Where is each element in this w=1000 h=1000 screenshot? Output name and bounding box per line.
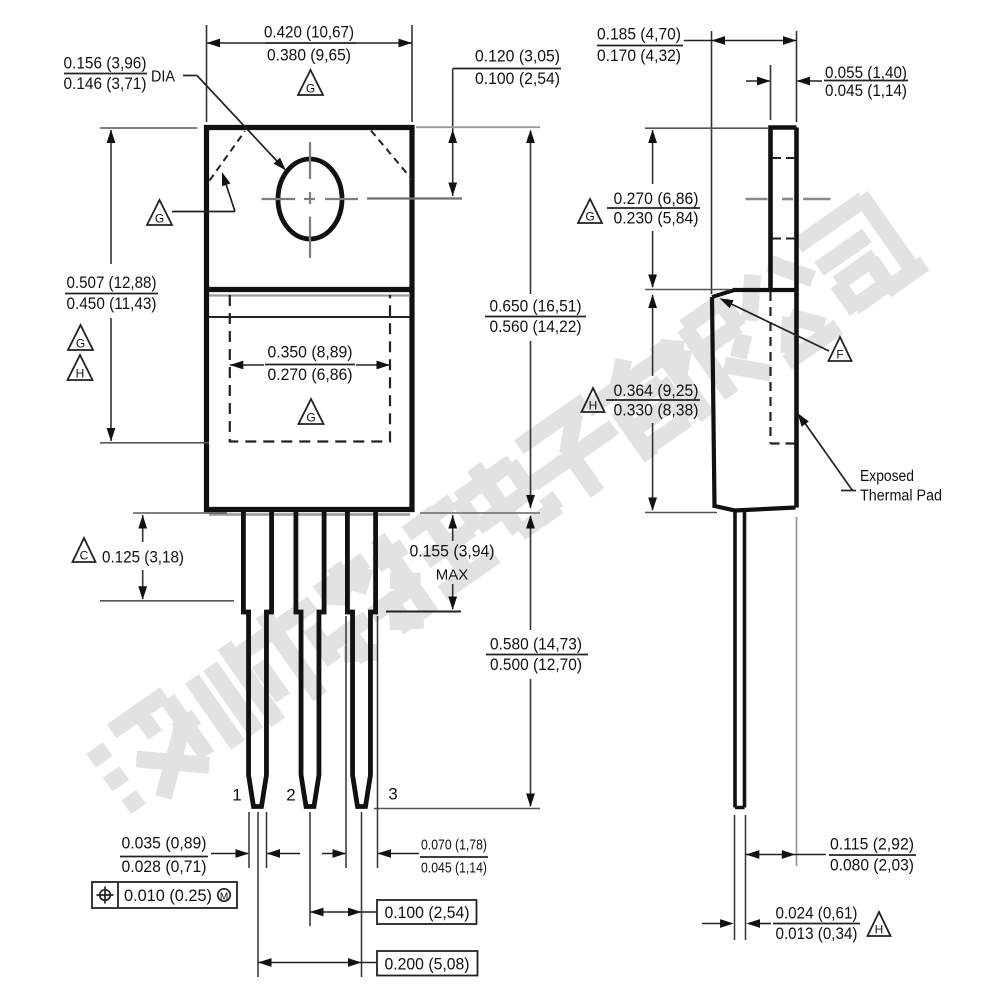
tab top extension line (left) [100,127,198,129]
svg-text:0.045 (1,14): 0.045 (1,14) [421,860,487,877]
side view: body front edge [712,297,715,506]
svg-text:H: H [76,367,85,381]
lead edge extension lines (side bottom) [734,815,736,940]
dim 0.070/0.045 arrows [322,853,345,855]
svg-text:1: 1 [232,786,241,805]
svg-text:0.100 (2,54): 0.100 (2,54) [475,69,560,88]
svg-text:MAX: MAX [436,567,469,584]
dim 0.364/0.330 line and arrows [652,295,654,376]
svg-text:3: 3 [388,785,397,804]
side view: lead [735,510,745,808]
front view: mounting hole [278,159,342,239]
dim 0.185/0.170 extension lines [711,31,713,294]
dim 0.055/0.045 extension line [770,65,772,120]
svg-text:C: C [80,549,89,563]
dim 0.350/0.270 arrows [230,364,264,366]
svg-text:DIA: DIA [151,69,176,86]
svg-text:H: H [589,399,598,413]
dim 0.024/0.013 arrows [702,923,726,925]
svg-text:0.507 (12,88): 0.507 (12,88) [67,273,157,292]
datum flag G with leader to chamfer (front left) [147,200,172,225]
svg-text:0.035 (0,89): 0.035 (0,89) [122,834,207,853]
hole centerlines [309,142,311,179]
datum flag H (side) [582,388,605,412]
svg-text:0.450 (11,43): 0.450 (11,43) [67,294,157,313]
dim 0.580/0.500 line and arrows [530,516,532,630]
front view: gray shade line under body bottom [209,513,410,515]
svg-text:0.010 (0.25): 0.010 (0.25) [124,886,212,905]
dim 0.507/0.450 line and arrows [110,130,112,264]
lead1 narrow edge extension lines [248,812,250,868]
svg-text:0.270 (6,86): 0.270 (6,86) [268,365,353,384]
feature control frame box [92,882,237,908]
side view: exposed pad dashed line [769,292,771,444]
body right edge extension (gray) [796,517,798,866]
svg-text:0.185 (4,70): 0.185 (4,70) [597,25,681,44]
svg-text:0.013 (0,34): 0.013 (0,34) [776,924,858,943]
svg-text:0.350 (8,89): 0.350 (8,89) [268,343,353,362]
extension line at tab top (side, left) [645,127,768,129]
datum flag G inside dashed rect [299,399,324,424]
DIA leader line to hole [183,75,197,77]
dim 0.185/0.170 line and arrows [684,40,797,42]
svg-text:0.560 (14,22): 0.560 (14,22) [490,317,582,336]
watermark: diagonal light-gray Chinese company name [79,185,929,825]
dim 0.270/0.230 line and arrows [652,130,654,184]
dim 0.055/0.045 arrows [746,80,770,82]
svg-text:Thermal Pad: Thermal Pad [860,488,942,505]
datum flag G (side) [578,199,602,223]
lead3 wide edge extension lines [345,616,347,868]
front view: package body outline [207,128,413,510]
svg-text:H: H [875,923,884,937]
side view: tab dash marks [772,157,795,159]
lead step extension line (left) [100,600,234,602]
dim 0.420/0.380 line and arrows [207,42,268,44]
svg-text:0.420 (10,67): 0.420 (10,67) [264,23,354,42]
datum flag C [73,538,96,562]
svg-text:0.364 (9,25): 0.364 (9,25) [614,381,699,400]
svg-text:0.580 (14,73): 0.580 (14,73) [490,635,582,654]
dashed chamfer line top-right [371,131,412,180]
svg-text:F: F [836,348,843,362]
svg-text:0.070 (1,78): 0.070 (1,78) [421,837,487,854]
dim 0.115/0.080 line and arrows [746,854,827,856]
datum flag G below 0.420 [298,70,323,95]
svg-text:G: G [306,411,315,425]
dim 0.120/0.100 line and arrows [452,69,454,197]
lead step extension line (right) [386,611,461,613]
svg-text:0.146 (3,71): 0.146 (3,71) [64,74,147,93]
side view: tab outline [771,128,797,291]
svg-text:0.028 (0,71): 0.028 (0,71) [122,857,207,876]
dim 0.200 box [377,951,478,976]
side view: chamfer [712,290,735,297]
front view: body inner line [209,316,410,318]
dim 0.125 line and arrows [142,515,144,542]
svg-text:0.330 (8,38): 0.330 (8,38) [614,401,699,420]
datum flag H (bottom right) [868,912,891,936]
svg-text:0.170 (4,32): 0.170 (4,32) [597,46,681,65]
extension line at dashed-rect bottom (left) [100,442,209,444]
svg-text:0.200 (5,08): 0.200 (5,08) [385,955,470,974]
svg-text:0.500 (12,70): 0.500 (12,70) [490,655,582,674]
svg-text:0.230 (5,84): 0.230 (5,84) [614,209,699,228]
svg-text:0.156 (3,96): 0.156 (3,96) [64,54,147,73]
front view: tab/body boundary thick line [204,287,415,292]
dim 0.035/0.028 arrows [211,853,248,855]
svg-text:0.125 (3,18): 0.125 (3,18) [102,548,184,567]
dim 0.200 line and arrows [258,962,377,964]
dashed chamfer line top-left [210,131,246,181]
body bottom extension (left) [133,512,227,514]
extension line at body top (side, left) [645,289,730,291]
dashed heatsink outline rectangle [230,295,390,442]
lead 1 (front view) [243,512,271,807]
datum flag H [68,355,93,380]
datum flag F with leader [829,337,852,361]
hole centerline extension to 0.120 dimension [367,197,462,199]
svg-text:0.155 (3,94): 0.155 (3,94) [410,542,495,561]
exposed thermal pad leader and text [800,416,853,491]
datum flag G [68,325,93,350]
svg-text:0.650 (16,51): 0.650 (16,51) [490,297,582,316]
svg-text:0.055 (1,40): 0.055 (1,40) [825,63,907,82]
MMC modifier symbol [218,889,230,901]
dim 0.100 line and arrows [310,911,377,913]
dim 0.100 box [377,900,477,924]
body bottom extension (right, gray) [420,512,540,514]
side view: body right edge [794,128,799,508]
dim 0.650/0.560 line and arrows [530,131,532,294]
lead center extension lines [257,812,259,977]
dim 0.420/0.380 extension lines [206,25,208,122]
svg-text:Exposed: Exposed [860,468,914,485]
extension line at body bottom (side, left) [645,512,717,514]
svg-text:M: M [220,892,228,903]
lead 2 (front view) [296,512,324,807]
position symbol [100,890,111,901]
svg-text:G: G [76,337,85,351]
svg-text:0.045 (1,14): 0.045 (1,14) [825,81,907,100]
front view: gray shade line under tab boundary [209,294,410,296]
svg-text:G: G [155,212,164,226]
svg-text:0.100 (2,54): 0.100 (2,54) [385,903,470,922]
side view: body top edge [733,288,795,292]
svg-text:0.080 (2,03): 0.080 (2,03) [830,856,914,875]
svg-text:2: 2 [286,786,295,805]
tab top extension line (right, gray) [416,126,540,128]
svg-text:G: G [585,210,594,224]
svg-text:0.270 (6,86): 0.270 (6,86) [614,189,699,208]
svg-text:0.380 (9,65): 0.380 (9,65) [267,46,351,65]
svg-text:0.115 (2,92): 0.115 (2,92) [830,835,914,854]
svg-text:0.120 (3,05): 0.120 (3,05) [475,47,560,66]
side view: body bottom edge [713,506,796,511]
svg-text:G: G [306,82,315,96]
svg-text:0.024 (0,61): 0.024 (0,61) [776,904,858,923]
lead tip extension line to right [374,808,540,810]
lead 3 (front view) [347,512,375,807]
dim 0.155 MAX line and arrows [452,515,454,541]
